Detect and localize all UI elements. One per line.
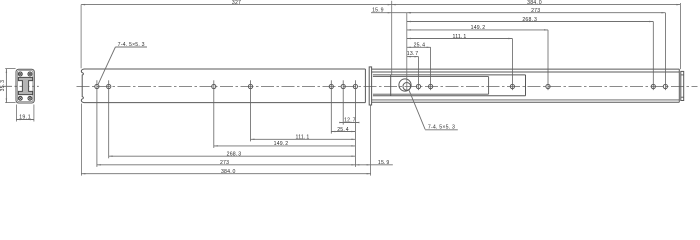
svg-text:149.2: 149.2 [471,25,486,31]
dimension 327 [81,4,392,6]
svg-text:268.3: 268.3 [227,152,242,158]
witness inner hole 3 [430,47,432,90]
outer rail hole 1 [95,84,99,88]
outer rail hole 4 [248,84,252,88]
outer rail hole 3 [212,84,216,88]
witness rail left end (327) [80,5,82,69]
centerline of cross-section view [2,85,39,87]
dimension 268.3 bottom [109,155,356,157]
witness right of section [33,105,35,122]
svg-text:149.2: 149.2 [274,141,289,147]
dimension 35.3 (section height) [5,69,7,103]
dimension 111.1 top [407,38,513,40]
outer rail bottom edge [84,102,365,104]
right end cap plate [681,71,684,100]
outer rail left formed end [81,69,84,103]
drawer member left end [390,75,392,96]
drawer member inner fold top [373,76,489,78]
outer rail hole 2 [107,84,111,88]
dimension 149.2 top [407,29,548,31]
dimension 273 top [407,12,666,14]
drawer member window right edge [525,75,527,96]
witness large hole [406,13,408,91]
ball bottom-right bearing [28,96,32,100]
svg-text:327: 327 [232,0,241,6]
svg-text:111.1: 111.1 [296,135,310,141]
witness inner hole 4 [511,39,513,91]
cross-section outer profile [16,69,34,103]
inner hole 4 [510,84,514,88]
witness outer hole 7 [354,80,356,167]
drawer member outer fold top [373,74,526,76]
dimension 15.9 bottom [355,164,392,166]
svg-text:384.0: 384.0 [527,0,542,6]
svg-text:273: 273 [531,8,540,14]
witness left of section [15,105,17,122]
svg-text:25.4: 25.4 [414,43,426,49]
witness junction plate edge [370,105,372,175]
inner hole 3 [429,84,433,88]
witness top of section [5,68,15,70]
inner member web (I-beam) [18,77,32,94]
drawer member inner end [488,77,490,95]
dimension 273 bottom [97,164,356,166]
dimension 111.1 bottom [251,138,356,140]
drawer member inner fold bottom [373,93,489,95]
witness rail left end (384 bottom) [80,104,82,176]
svg-text:384.0: 384.0 [221,169,236,175]
witness outer hole 4 [250,80,252,141]
large mounting hole inner [403,83,411,91]
witness bottom of section [5,102,15,104]
svg-text:15.9: 15.9 [378,160,390,166]
witness inner hole 6 [652,22,654,91]
outer rail top edge [84,68,365,70]
dimension 384.0 top [392,4,681,6]
main centerline [77,85,698,87]
ball top-right bearing [28,72,32,76]
ball top-left bearing [18,72,22,76]
cross-section inner wall [17,71,33,102]
svg-text:25.4: 25.4 [337,127,349,133]
svg-text:15.9: 15.9 [372,8,384,14]
svg-text:13.7: 13.7 [407,51,419,57]
svg-text:35.3: 35.3 [0,80,6,92]
inner hole 6 [651,84,655,88]
large mounting hole outer [399,79,411,91]
inner hole 2 [416,84,420,88]
svg-text:19.1: 19.1 [19,114,31,120]
dimension 25.4 bottom [331,131,355,133]
leader to outer rail slots [98,47,115,84]
witness intermediate rail end [679,3,681,69]
drawer member outer fold bottom [373,95,526,97]
intermediate rail top fold line [372,71,680,73]
ball bottom-left bearing [18,96,22,100]
dimension 268.3 top [407,21,654,23]
witness outer hole 5 [330,80,332,133]
inner hole 7 [663,84,667,88]
dimension 149.2 bottom [214,145,356,147]
dimension 25.4 top [407,46,431,48]
dimension 12.7 bottom [340,122,359,124]
leader to drawer member slots [409,90,425,129]
inner hole 5 [546,84,550,88]
cap upper tab line [681,74,684,76]
dimension 384.0 bottom [81,173,370,175]
outer rail right end [364,69,366,103]
witness drawer member left end [391,1,393,75]
dimension 15.9 top [371,12,407,14]
dimension 13.7 top [407,56,419,58]
svg-text:111.1: 111.1 [453,34,467,40]
witness outer hole 3 [213,80,215,148]
witness inner hole 7 [664,13,666,90]
witness inner hole 2 [418,57,420,91]
witness inner hole 5 [547,30,549,90]
witness outer hole 2 [108,80,110,158]
svg-text:268.3: 268.3 [522,17,537,23]
svg-text:273: 273 [220,160,229,166]
intermediate rail right end [678,69,680,102]
outer rail hole 6 [341,84,345,88]
intermediate rail bottom fold line [372,99,680,101]
junction end plate [369,67,371,105]
svg-text:7-4. 5×5. 3: 7-4. 5×5. 3 [428,125,455,131]
cap lower tab line [681,96,684,98]
witness outer hole 6 [342,80,344,124]
outer rail hole 5 [329,84,333,88]
intermediate rail top edge [372,68,680,70]
witness outer hole 1 [96,80,98,167]
svg-text:12.7: 12.7 [344,118,356,124]
outer rail hole 7 [353,84,357,88]
intermediate rail bottom edge [372,101,680,103]
svg-text:7-4. 5×5. 3: 7-4. 5×5. 3 [118,42,145,48]
